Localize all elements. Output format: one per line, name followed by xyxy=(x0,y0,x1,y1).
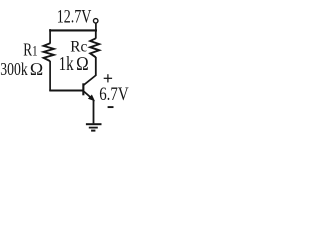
transistor Q1 base bar xyxy=(82,83,84,95)
transistor Q1 collector diagonal xyxy=(84,75,97,85)
wire: R1 bottom lead xyxy=(49,61,51,91)
label plus xyxy=(104,74,112,82)
resistor R1 xyxy=(44,43,54,61)
wire: R1 top lead xyxy=(49,29,51,43)
svg-text:Ω: Ω xyxy=(30,59,44,79)
wire: collector lead xyxy=(95,57,97,76)
wire: top rail xyxy=(49,29,97,31)
svg-text:1k: 1k xyxy=(59,54,74,75)
supply terminal circle xyxy=(93,19,98,24)
resistor Rc xyxy=(90,38,99,57)
transistor Q1 emitter diagonal xyxy=(84,91,91,97)
svg-text:Rc: Rc xyxy=(70,38,87,55)
wire: terminal stem xyxy=(95,23,97,31)
wire: base wire xyxy=(49,89,82,91)
wire: emitter lead xyxy=(93,100,95,123)
svg-text:Ω: Ω xyxy=(76,54,89,75)
svg-text:6.7V: 6.7V xyxy=(99,85,129,105)
background xyxy=(0,0,133,143)
label minus xyxy=(108,106,114,108)
ground xyxy=(86,124,102,130)
svg-text:300k: 300k xyxy=(0,59,27,79)
wire: Rc top lead xyxy=(95,30,97,39)
transistor Q1 emitter arrow xyxy=(88,95,95,102)
svg-text:12.7V: 12.7V xyxy=(57,8,92,28)
